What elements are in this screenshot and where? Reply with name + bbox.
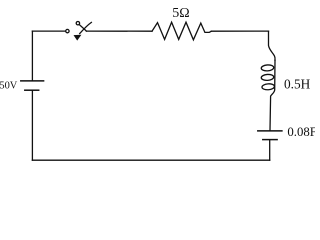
battery V1 bottom plate (short) [25,89,39,91]
wire left vertical upper [31,31,33,80]
wire bottom horizontal [32,159,269,161]
switch S1 left contact circle [66,29,69,32]
switch S1 blade [79,25,86,32]
svg-text:50V: 50V [0,81,18,92]
inductor L1 loop 2 [261,74,274,81]
wire top right horizontal [211,30,268,32]
wire top middle horizontal [86,30,152,32]
svg-text:0.5H: 0.5H [284,76,311,91]
inductor L1 main strand [270,60,275,130]
wire below capacitor [269,140,271,160]
switch S1 closing-motion arrow line [80,22,92,33]
svg-text:5Ω: 5Ω [172,6,189,21]
capacitor C1 bottom plate (short) [263,139,277,141]
battery V1 top plate (long) [21,80,44,82]
inductor L1 loop 1 [261,65,274,72]
switch S1 arrowhead [74,35,82,41]
svg-text:0.08F: 0.08F [287,125,315,139]
wire left vertical lower [31,91,33,160]
inductor L1 loop 3 [262,83,275,90]
resistor R1 zigzag [152,22,211,40]
wire top-left horizontal [32,30,65,32]
capacitor C1 top plate (long) [258,130,282,132]
switch S1 upper contact circle [76,22,79,25]
wire right vertical into inductor [269,31,276,60]
